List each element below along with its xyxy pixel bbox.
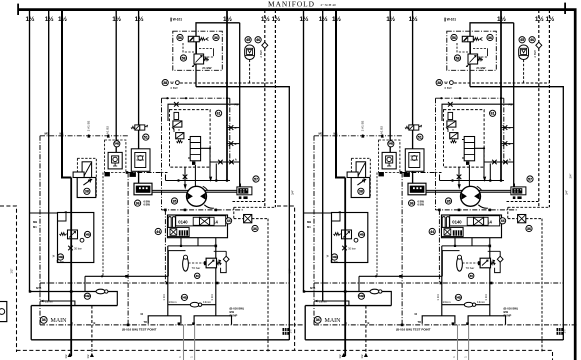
port cross 2 (227, 127, 240, 129)
svg-text:1 1/4: 1 1/4 (162, 294, 166, 301)
svg-text:1½: 1½ (288, 329, 292, 334)
svg-text:C: C (235, 126, 237, 130)
left edge instrument box (0, 302, 7, 322)
block left gauges (168, 217, 171, 237)
svg-text:8/18: 8/18 (36, 286, 42, 290)
circle 34B charge (84, 231, 90, 237)
junction on discharge (70, 290, 73, 293)
charge valve box (58, 213, 94, 263)
circle 45 (245, 37, 251, 43)
relief valve 70bar (206, 258, 216, 268)
circle 34B pump2 (181, 294, 187, 300)
svg-text:3/4″: 3/4″ (569, 174, 573, 179)
svg-text:36: 36 (136, 201, 140, 205)
svg-text:34: 34 (42, 318, 46, 322)
junction squares y=283 (166, 282, 169, 285)
svg-text:1½: 1½ (223, 15, 233, 23)
dashed pipe P7 (264, 10, 266, 207)
svg-text:1½: 1½ (261, 15, 271, 23)
svg-text:1½: 1½ (58, 15, 68, 23)
pilot dashed to relief (188, 262, 204, 264)
proportional valve (190, 137, 200, 161)
circle 34B on P4 (114, 141, 120, 147)
svg-text:36: 36 (214, 36, 218, 40)
pipe P5 from manifold (138, 10, 140, 184)
circle 51 (143, 134, 149, 140)
svg-text:3/4″: 3/4″ (290, 190, 294, 195)
filter unit dashed box (77, 158, 96, 197)
charge valve (68, 230, 78, 239)
dash-dot bank boundary left (39, 136, 41, 325)
svg-text:6 BW: 6 BW (171, 86, 178, 90)
svg-text:B: B (71, 321, 73, 325)
svg-text:35: 35 (173, 199, 177, 203)
gauge drain dashed (249, 60, 251, 84)
tub profile (148, 316, 231, 325)
block tail lines (168, 238, 216, 246)
label 13mm line (40, 301, 75, 306)
mid header (dash-dot) (162, 209, 244, 211)
pilot valve V2 (194, 54, 204, 64)
svg-text:M1: M1 (45, 132, 49, 136)
circle 36 (213, 34, 219, 40)
svg-text:70 bar: 70 bar (56, 260, 64, 264)
svg-text:1½: 1½ (26, 15, 36, 23)
station bottom tab (130, 172, 136, 177)
svg-text:A1 B2: A1 B2 (106, 126, 110, 135)
cluster box right side pipe (239, 23, 241, 190)
svg-text:PB: PB (235, 103, 239, 107)
svg-text:44: 44 (227, 219, 231, 223)
enclosure box (dash-dot) around pilot valves (173, 31, 223, 70)
svg-text:51: 51 (144, 135, 148, 139)
solenoid S51 (131, 126, 135, 128)
circle 35 (171, 198, 177, 204)
svg-text:1½: 1½ (135, 15, 145, 23)
svg-text:36: 36 (253, 227, 257, 231)
svg-text:A: A (235, 157, 237, 161)
dashed P4 box (105, 140, 126, 173)
svg-text:56: 56 (178, 36, 182, 40)
small box above motor (73, 172, 84, 178)
svg-text:1½: 1½ (112, 15, 122, 23)
junction square M2 (126, 171, 129, 174)
pipe P3 from manifold (62, 10, 71, 178)
right manifold bank (duplicate) (300, 10, 578, 360)
pipe P4 from manifold (115, 10, 117, 152)
svg-text:(B-016 BW) TEST POINT: (B-016 BW) TEST POINT (122, 328, 157, 332)
svg-text:34B: 34B (85, 232, 90, 236)
pipe P6 to valve cluster (226, 10, 228, 181)
svg-text:21 BW: 21 BW (202, 66, 211, 70)
svg-text:61: 61 (217, 112, 221, 116)
pipe P2 from manifold (48, 10, 50, 301)
dash-dot drop x=128 (128, 173, 167, 325)
stub labels bottom (68, 353, 72, 357)
svg-text:45: 45 (246, 38, 250, 42)
pilot header (dash-dot) (162, 97, 230, 99)
svg-text:2 BW: 2 BW (259, 50, 263, 58)
svg-text:TD: TD (144, 320, 148, 324)
discharge double line (152, 190, 238, 192)
relief loop (214, 251, 227, 272)
svg-text:1½: 1½ (271, 15, 281, 23)
valve block lower stage (168, 227, 190, 236)
P4 station box (108, 152, 122, 169)
svg-text:38: 38 (85, 190, 89, 194)
control enclosure (dashed) (170, 110, 211, 168)
circle 34B lower (57, 254, 63, 260)
svg-text:BW: BW (230, 310, 235, 314)
dashed pipe P8 (274, 10, 276, 207)
isolation cross A (174, 102, 179, 107)
svg-text:B: B (94, 321, 96, 325)
svg-text:30 bar: 30 bar (74, 246, 82, 250)
svg-text:1 1/4: 1 1/4 (210, 294, 214, 301)
svg-text:B: B (235, 142, 237, 146)
svg-text:46: 46 (256, 38, 260, 42)
svg-text:PUMP: PUMP (230, 313, 238, 317)
circle 46 (255, 37, 261, 43)
svg-text:70 bar: 70 bar (192, 266, 201, 270)
circle 34B pump1 (84, 293, 90, 299)
pump/motor M (187, 186, 207, 206)
dashed header y=207.3 (234, 206, 276, 208)
svg-text:(B-016 BW): (B-016 BW) (230, 307, 244, 311)
svg-text:58: 58 (182, 56, 186, 60)
pilot cluster supply box (196, 23, 289, 340)
dash-dot drop x=165.4 (164, 210, 166, 283)
dash-dot left boundary x=161.5 (161, 98, 163, 210)
svg-text:▌W-101: ▌W-101 (171, 18, 183, 22)
junction squares mid header (164, 209, 167, 212)
svg-text:1/2: 1/2 (64, 354, 68, 359)
pump 2 (190, 302, 199, 307)
svg-text:MANIFOLD: MANIFOLD (268, 0, 315, 8)
circle 44 left (155, 228, 161, 234)
circle 58 (180, 55, 186, 61)
svg-text:38: 38 (163, 81, 167, 85)
junction dashdot bottom (127, 324, 130, 327)
dashed pilot links (183, 43, 214, 57)
circle 44 right (226, 218, 232, 224)
bottom dash-dot header (40, 324, 304, 326)
junction on charge box (65, 211, 67, 213)
circle 36 bypass (252, 225, 258, 231)
charge cross (68, 246, 73, 251)
circle 57 (253, 176, 259, 182)
svg-text:30: 30 (196, 274, 200, 278)
pump 2 line (168, 304, 216, 306)
stub drain 1 (91, 306, 93, 356)
solenoid valve V1 (188, 36, 199, 42)
svg-text:0140: 0140 (178, 219, 188, 224)
svg-text:44: 44 (156, 230, 160, 234)
circle 36 lower (135, 200, 141, 206)
svg-text:MAIN: MAIN (51, 318, 68, 324)
riser x=71.2 (70, 178, 72, 357)
riser x=215.8 (215, 246, 217, 316)
riser x=167.8 (167, 246, 169, 316)
svg-text:57: 57 (254, 177, 258, 181)
connector block J2 (134, 183, 152, 195)
svg-text:1½: 1½ (45, 15, 55, 23)
svg-text:2 A1 B2: 2 A1 B2 (86, 120, 90, 131)
circle 38 motor (84, 188, 90, 194)
svg-text:13mm: 13mm (45, 299, 54, 303)
svg-text:6 BW: 6 BW (144, 203, 151, 207)
pressure reducing valve (174, 112, 179, 119)
pilot branch (201, 148, 240, 176)
svg-text:34B: 34B (85, 294, 90, 298)
pilot line y=104 (168, 104, 240, 121)
accumulator enclosure (168, 251, 185, 277)
right bank drain (dashed) (277, 206, 295, 350)
svg-text:13mm: 13mm (169, 300, 178, 304)
circle 61 (216, 110, 222, 116)
accumulator (183, 257, 189, 271)
inner corner line (58, 213, 67, 222)
svg-text:1/2″: 1/2″ (9, 268, 13, 273)
header y=276.3 (85, 276, 168, 291)
circle 34 MAIN (40, 317, 47, 324)
port cross 3 (227, 143, 240, 145)
svg-text:M1: M1 (33, 225, 37, 229)
junction squares on M1 (61, 135, 63, 137)
circle 30 (195, 273, 200, 278)
charge feed line (30, 212, 58, 214)
pipe P1 from manifold (29, 10, 31, 292)
suction line y=291.5 (30, 292, 118, 306)
junction grid block (283, 328, 290, 335)
svg-text:34B: 34B (114, 142, 119, 146)
valve tail line (194, 165, 196, 190)
diamond fitting (262, 42, 268, 48)
dashed drain header (180, 82, 275, 84)
connector block J1 (57) (237, 187, 252, 195)
junction dots on pilot header (166, 97, 168, 99)
M1 header (dash-dot) (40, 135, 128, 137)
svg-text:2″ SCH 40: 2″ SCH 40 (321, 3, 337, 7)
gray stubs (184, 325, 195, 360)
gauge body (245, 45, 255, 60)
svg-text:34B: 34B (58, 255, 63, 259)
filter element (82, 162, 92, 180)
P5 station box (131, 149, 150, 172)
dashed link y=201.5 (233, 201, 265, 203)
suction header y=180.5 (166, 175, 231, 181)
pump 1 (96, 289, 105, 294)
svg-text:MB: MB (33, 220, 37, 224)
circle 38 (162, 80, 168, 86)
svg-text:1/2: 1/2 (86, 354, 90, 359)
circle 56 (177, 34, 183, 40)
relief valve stage 2 (176, 133, 184, 139)
bypass valve X (244, 215, 252, 223)
bottom left frame (31, 306, 289, 340)
drain header (dash-dot) y=283 (40, 282, 289, 284)
svg-text:34B: 34B (182, 295, 187, 299)
left manifold bank (26, 10, 304, 360)
motor box (77, 178, 96, 198)
dashed drop x=103 (102, 173, 104, 277)
left drain line (dashed) (0, 206, 553, 360)
dash-dot riser x=229.8 (229, 98, 231, 164)
diamond on relief (223, 256, 229, 262)
main control valve block (168, 215, 228, 238)
